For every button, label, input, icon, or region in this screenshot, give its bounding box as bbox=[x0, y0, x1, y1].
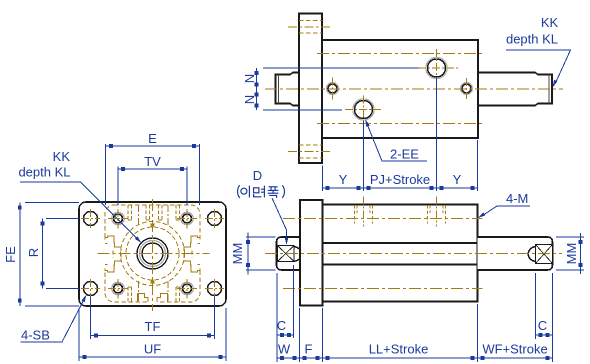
svg-text:4-M: 4-M bbox=[506, 191, 528, 206]
svg-text:PJ+Stroke: PJ+Stroke bbox=[370, 172, 430, 187]
svg-text:TF: TF bbox=[145, 319, 161, 334]
port hole 2-EE lower (top view) bbox=[353, 99, 374, 120]
dimension FE bbox=[20, 203, 79, 307]
svg-text:MM: MM bbox=[564, 243, 579, 265]
small threaded hole right (top view) bbox=[461, 83, 473, 95]
pilot circle dashed outer (front view) bbox=[121, 222, 185, 286]
hidden bolt hole top (flange, top view) bbox=[288, 21, 331, 34]
leader 4-M bbox=[481, 206, 530, 217]
dimension Y / PJ+Stroke / Y (below top view) bbox=[323, 78, 478, 192]
dimension R bbox=[43, 219, 80, 289]
flange plate (top view) bbox=[299, 14, 322, 164]
wire: body upper inner line (bottom view) bbox=[323, 242, 478, 244]
svg-text:depth KL: depth KL bbox=[18, 165, 70, 180]
svg-text:C: C bbox=[277, 318, 286, 333]
wire: front view vertical centerline bbox=[152, 199, 154, 311]
cylinder body (bottom view) bbox=[323, 205, 478, 302]
wire: cushion screw centerline right (front view) bbox=[167, 205, 169, 302]
leader KK depth KL (top view) bbox=[506, 50, 571, 84]
wire: body lower inner line (bottom view) bbox=[323, 264, 478, 266]
rod bore circle (front view) bbox=[142, 243, 163, 264]
leader D (wrench flat width) bbox=[272, 198, 287, 241]
wire: N dimension extension line upper bbox=[263, 67, 419, 69]
wire: upper tie-rod centerline (top view) bbox=[317, 53, 484, 55]
svg-text:WF+Stroke: WF+Stroke bbox=[482, 342, 547, 357]
svg-text:depth KL: depth KL bbox=[506, 32, 558, 47]
port hole 2-EE upper (top view) bbox=[426, 57, 447, 78]
piston rod right (top view) bbox=[478, 73, 552, 106]
svg-text:R: R bbox=[26, 248, 41, 257]
hidden port hole 1 (bottom view) bbox=[355, 205, 373, 224]
rear boss (bottom view) bbox=[277, 237, 300, 270]
svg-text:W: W bbox=[278, 342, 291, 357]
rod boss circle (front view) bbox=[137, 238, 168, 269]
SB hole top-right bbox=[205, 209, 224, 228]
svg-text:D: D bbox=[253, 168, 262, 183]
wrench flat square right with cross bbox=[528, 245, 552, 264]
svg-text:MM: MM bbox=[230, 243, 245, 265]
dimension TV bbox=[118, 167, 187, 206]
SB hole bottom-left bbox=[81, 279, 100, 298]
tie rod hole bottom-right bbox=[177, 279, 197, 299]
rear boss left (top view) bbox=[276, 73, 300, 106]
flange plate (bottom view) bbox=[300, 200, 323, 306]
small threaded hole left (top view) bbox=[327, 83, 339, 95]
label (이면폭) hand-drawn hangul bbox=[238, 185, 285, 198]
tie rod hole top-left bbox=[108, 209, 128, 229]
thread circle gray (front view) bbox=[140, 241, 166, 267]
SB hole bottom-right bbox=[205, 279, 224, 298]
wire: main axis centerline (top view) bbox=[265, 88, 563, 90]
sensor slot cutout right (front view) bbox=[184, 236, 200, 272]
sensor slot cutout bottom (front view) bbox=[138, 294, 168, 303]
SB hole top-left bbox=[81, 209, 100, 228]
wrench flat square left with cross bbox=[278, 246, 302, 262]
sensor slot cutout left (front view) bbox=[105, 236, 121, 272]
wire: upper tie-rod centerline (bottom view) bbox=[283, 218, 483, 220]
body profile dashed square (front view) bbox=[105, 205, 200, 302]
wire: cushion screw centerline left (front view) bbox=[138, 205, 140, 302]
wire: lower tie-rod centerline (top view) bbox=[317, 123, 484, 125]
wire: crosshair of upper port (top view) bbox=[418, 49, 459, 87]
dimension UF bbox=[79, 308, 226, 361]
wire: port 2 vertical centerline bbox=[436, 197, 438, 227]
svg-text:N: N bbox=[242, 74, 257, 83]
cylinder body (top view) bbox=[322, 40, 478, 138]
wire: lower tie-rod centerline (bottom view) bbox=[283, 288, 483, 290]
dimension MM right bbox=[556, 233, 584, 274]
wire: crosshair of small right hole (top view) bbox=[466, 78, 468, 99]
tie rod hole top-right bbox=[177, 209, 197, 229]
dimension W / F / LL+Stroke / WF+Stroke bbox=[277, 304, 553, 362]
svg-text:4-SB: 4-SB bbox=[21, 328, 50, 343]
arrow marks on pilot circle bbox=[150, 224, 155, 230]
svg-text:N: N bbox=[242, 95, 257, 104]
svg-text:Y: Y bbox=[339, 172, 348, 187]
wire: crosshair of small left hole (top view) bbox=[332, 78, 334, 100]
leader KK depth KL (front view) bbox=[20, 182, 140, 241]
svg-text:KK: KK bbox=[541, 15, 559, 30]
dimension TF bbox=[90, 297, 215, 340]
wire: main axis centerline (bottom view) bbox=[265, 253, 562, 255]
pilot circle dashed inner (front view) bbox=[126, 227, 179, 280]
dimension E bbox=[106, 144, 200, 205]
dimension N N (left of top view) bbox=[255, 68, 259, 110]
wire: front view horizontal centerline bbox=[98, 253, 210, 255]
wire: port 1 vertical centerline bbox=[363, 197, 365, 227]
hidden slots bottom edge (front view) bbox=[128, 287, 180, 302]
leader 4-SB bbox=[21, 298, 86, 343]
dimension C left bbox=[277, 265, 295, 362]
hidden port hole 2 (bottom view) bbox=[428, 205, 446, 224]
svg-text:Y: Y bbox=[453, 172, 462, 187]
svg-text:C: C bbox=[538, 318, 547, 333]
wire: N dimension extension line lower bbox=[263, 109, 342, 111]
svg-text:2-EE: 2-EE bbox=[390, 147, 419, 162]
hidden bolt hole bottom (flange, top view) bbox=[288, 145, 331, 158]
tie rod hole bottom-left bbox=[108, 279, 128, 299]
svg-text:FE: FE bbox=[3, 246, 18, 263]
piston rod (bottom view) bbox=[478, 237, 553, 270]
flange plate front view bbox=[79, 202, 226, 306]
dimension C right bbox=[535, 273, 553, 362]
hidden slots top edge (front view) bbox=[128, 205, 180, 220]
svg-text:UF: UF bbox=[144, 342, 161, 357]
wire: crosshair of lower port (top view) bbox=[345, 96, 382, 129]
svg-text:F: F bbox=[305, 342, 313, 357]
svg-text:KK: KK bbox=[53, 149, 71, 164]
svg-text:E: E bbox=[148, 131, 157, 146]
leader 2-EE bbox=[366, 122, 427, 162]
dimension MM left bbox=[246, 233, 276, 275]
svg-text:TV: TV bbox=[144, 154, 161, 169]
svg-text:LL+Stroke: LL+Stroke bbox=[369, 342, 429, 357]
